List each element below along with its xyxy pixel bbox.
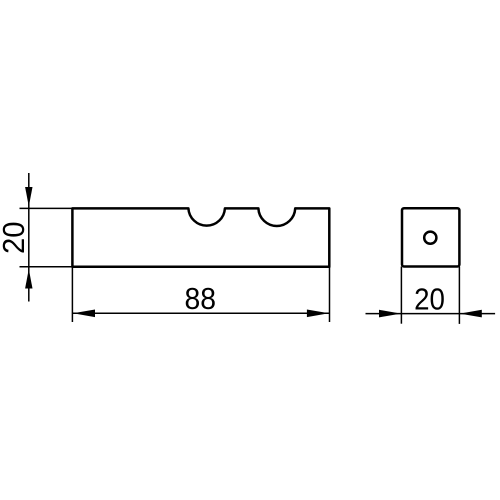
arrowhead left	[73, 310, 95, 318]
arrowhead right	[307, 310, 329, 318]
hole circle	[424, 232, 436, 244]
arrowhead pointing left at right ext	[460, 310, 482, 318]
extension line: right of 88 dim	[329, 267, 331, 322]
part outline: side view bar with two semicircular notches	[72, 208, 329, 266]
dimension line: horizontal 88	[72, 312, 329, 314]
extension line: top left of 20 dim	[20, 207, 73, 209]
dimension line: horizontal right 20	[366, 313, 496, 315]
arrowhead up	[25, 269, 32, 289]
svg-text:20: 20	[0, 222, 31, 255]
extension line: left of 88 dim	[71, 267, 73, 322]
extension line: left of right 20 dim	[400, 267, 402, 324]
svg-text:88: 88	[185, 281, 217, 316]
dimension line: vertical 20	[28, 173, 30, 302]
svg-text:20: 20	[414, 282, 445, 317]
extension line: bottom left of 20 dim	[20, 266, 73, 268]
part outline: end view square	[402, 208, 459, 266]
extension line: right of right 20 dim	[458, 267, 460, 324]
arrowhead down	[25, 187, 32, 207]
arrowhead pointing right at left ext	[379, 310, 401, 318]
